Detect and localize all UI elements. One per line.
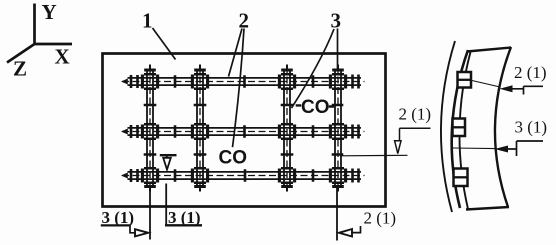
svg-text:2: 2 [239, 9, 250, 33]
svg-text:X: X [55, 45, 70, 69]
svg-text:CO: CO [301, 97, 330, 118]
svg-text:3 (1): 3 (1) [168, 208, 201, 227]
svg-text:Z: Z [13, 57, 27, 81]
svg-text:1: 1 [142, 9, 153, 33]
svg-text:2 (1): 2 (1) [364, 209, 397, 228]
svg-text:3: 3 [331, 9, 342, 33]
svg-text:2 (1): 2 (1) [399, 105, 432, 124]
svg-text:CO: CO [219, 148, 248, 169]
svg-text:Y: Y [42, 0, 57, 24]
svg-text:3 (1): 3 (1) [515, 118, 548, 137]
svg-text:2 (1): 2 (1) [514, 63, 547, 82]
svg-text:3 (1): 3 (1) [102, 208, 135, 227]
